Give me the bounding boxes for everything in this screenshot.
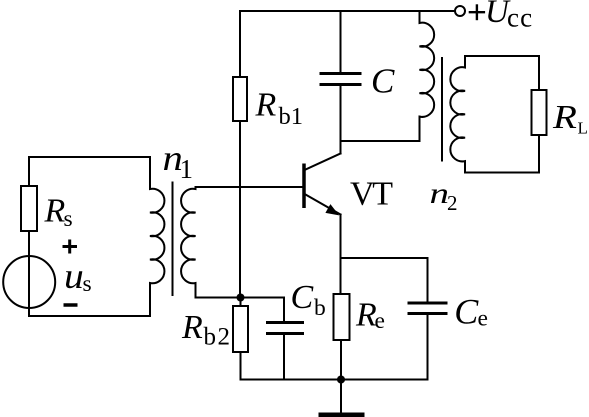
svg-text:b1: b1 xyxy=(279,103,304,130)
wire n1 secondary bottom to junction xyxy=(196,297,241,299)
transformer T1 secondary winding xyxy=(181,187,195,298)
resistor Re xyxy=(334,294,350,380)
svg-text:1: 1 xyxy=(180,154,194,184)
transformer T2 core xyxy=(441,58,443,161)
source us circle xyxy=(3,256,55,308)
resistor Rb2 xyxy=(233,298,248,380)
svg-text:cc: cc xyxy=(507,2,533,32)
label Rs xyxy=(44,193,73,232)
svg-text:u: u xyxy=(64,256,84,296)
label Re xyxy=(355,297,385,335)
label Rb1 xyxy=(255,86,304,129)
svg-text:2: 2 xyxy=(447,191,458,215)
wire bottom rail right xyxy=(341,379,428,381)
capacitor Cb xyxy=(266,298,304,380)
label Ce xyxy=(454,292,488,332)
node emitter ground junction xyxy=(337,376,345,384)
label +Ucc xyxy=(469,0,534,32)
svg-text:s: s xyxy=(64,206,73,232)
wire collector tank row xyxy=(341,140,420,142)
wire RL loop right upper xyxy=(538,56,540,90)
wire source bottom xyxy=(28,308,30,316)
wire tank to n2 primary bottom xyxy=(419,117,421,142)
wire source loop top xyxy=(29,156,150,158)
wire Rb1 lower to base divider node xyxy=(239,121,241,298)
wire RL loop right lower xyxy=(538,135,540,173)
transformer T1 core xyxy=(172,183,174,296)
svg-text:b: b xyxy=(314,295,326,321)
svg-text:R: R xyxy=(44,193,66,230)
capacitor C xyxy=(320,11,362,141)
wire Rb1 upper stem xyxy=(239,11,241,77)
svg-text:C: C xyxy=(371,62,395,101)
node base divider junction xyxy=(237,294,245,302)
label source polarity minus xyxy=(64,303,78,307)
wire source loop left upper xyxy=(28,157,30,186)
svg-text:R: R xyxy=(552,98,577,136)
wire top supply rail xyxy=(240,10,454,12)
wire junction to Cb xyxy=(241,297,285,299)
label Cb xyxy=(291,279,326,321)
resistor Rs xyxy=(21,186,37,231)
label n1 xyxy=(163,139,194,184)
label n2 xyxy=(430,176,458,215)
wire bottom rail left xyxy=(241,379,342,381)
ground xyxy=(319,380,365,417)
label Rb2 xyxy=(181,309,232,351)
terminal +Ucc open circle xyxy=(455,6,465,16)
label source polarity plus xyxy=(63,240,78,254)
transformer T2 primary winding xyxy=(420,11,435,141)
wire base xyxy=(196,186,305,188)
wire source loop bottom xyxy=(29,315,150,317)
svg-text:s: s xyxy=(83,271,92,297)
svg-text:e: e xyxy=(375,308,385,334)
transformer T1 primary winding xyxy=(150,157,164,316)
transformer T2 secondary winding xyxy=(450,56,465,173)
capacitor Ce xyxy=(408,258,448,380)
svg-text:C: C xyxy=(454,292,479,332)
svg-text:e: e xyxy=(478,306,488,332)
resistor RL xyxy=(532,90,547,135)
wire Rs to source xyxy=(28,231,30,256)
svg-text:L: L xyxy=(578,119,588,138)
wire RL loop top xyxy=(465,55,539,57)
svg-text:R: R xyxy=(255,86,277,123)
wire emitter row xyxy=(341,257,428,259)
svg-text:C: C xyxy=(291,279,314,316)
resistor Rb1 xyxy=(233,77,247,121)
svg-text:b2: b2 xyxy=(204,324,232,351)
transistor VT xyxy=(304,141,341,294)
label RL xyxy=(552,98,588,138)
svg-text:VT: VT xyxy=(350,175,393,212)
label us xyxy=(64,256,92,296)
wire RL loop bottom xyxy=(465,172,539,174)
svg-text:R: R xyxy=(181,309,203,346)
wire source internal xyxy=(28,256,30,308)
